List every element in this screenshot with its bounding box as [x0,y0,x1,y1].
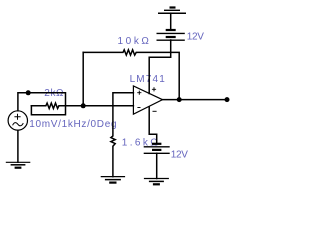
svg-text:10mV/1kHz/0Deg: 10mV/1kHz/0Deg [29,119,117,130]
svg-text:12V: 12V [171,149,188,160]
svg-text:10kΩ: 10kΩ [118,36,152,47]
svg-text:2kΩ: 2kΩ [44,88,64,99]
svg-text:12V: 12V [187,32,204,43]
svg-text:LM741: LM741 [130,74,166,85]
